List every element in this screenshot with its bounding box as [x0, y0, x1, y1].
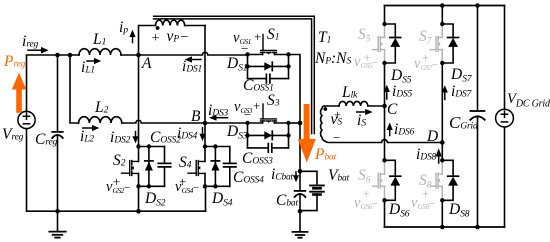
label plus S6	[363, 187, 370, 200]
label D_S5	[391, 68, 411, 84]
S6 junction dots	[382, 158, 386, 162]
wire CGrid branch lower	[477, 117, 479, 228]
label D_S2	[145, 191, 165, 207]
wire A-row with hop over primary-right vertical	[121, 52, 248, 55]
label i_DS3	[208, 103, 228, 119]
S2 cell frame rows	[139, 147, 165, 187]
diode DS7	[442, 24, 453, 63]
label node A	[142, 56, 151, 72]
arrow i_DS3	[216, 117, 228, 119]
capacitor Creg	[52, 131, 62, 133]
wire left leg	[384, 6, 386, 228]
node junction top (Creg tap)	[55, 53, 60, 58]
diode DS5	[385, 24, 396, 63]
label i_DS4	[177, 126, 197, 142]
label plus S7	[422, 51, 429, 64]
wire S2 vertical from node A down	[138, 55, 140, 147]
ground left	[57, 211, 59, 231]
node bottom rail junctions	[440, 225, 445, 230]
label plus vP	[152, 32, 160, 46]
S7 junction dots	[440, 22, 444, 26]
label node B	[191, 109, 200, 125]
wire L2 drop	[70, 55, 79, 123]
label node C	[387, 102, 397, 118]
arrow i_L2	[83, 127, 93, 129]
arrow i_DS4	[202, 128, 204, 135]
label i_Cbat	[271, 167, 293, 183]
wire S1 output to battery bus	[289, 55, 301, 172]
label i_S	[357, 113, 366, 129]
label i_DS6	[394, 122, 414, 138]
arrow i_p	[132, 36, 134, 43]
node ground-left junction	[55, 209, 60, 214]
label plus S5	[364, 51, 371, 64]
label V_reg	[2, 127, 23, 143]
label plus S3	[253, 99, 260, 112]
switch S3 MOSFET	[262, 104, 264, 119]
diode DS6	[385, 160, 396, 200]
label v_GS6-	[354, 196, 378, 211]
wire primary right down to node B	[185, 25, 205, 27]
label D_S8	[449, 202, 469, 218]
capacitor COSS1	[248, 78, 289, 80]
arrow i_L1	[87, 60, 95, 62]
label D_S1	[227, 56, 247, 72]
switch S8 MOSFET (inactive)	[430, 160, 442, 200]
label S8	[419, 173, 431, 189]
label v_GS1+	[233, 31, 251, 46]
label C_OSS1	[243, 78, 274, 94]
label i_DS8	[416, 147, 436, 163]
wire CGrid branch upper	[477, 6, 479, 112]
label D_S7	[451, 67, 471, 83]
label V_DC_Grid	[507, 92, 550, 107]
wire node A up to primary	[139, 26, 156, 56]
label C_OSS4	[233, 170, 264, 186]
label v_GS2-	[106, 180, 130, 195]
wire S4 vertical from node B down	[204, 123, 206, 147]
switch S5 MOSFET (inactive)	[373, 24, 385, 63]
S5 junction dots	[382, 22, 386, 26]
label v_GS7-	[414, 57, 438, 72]
node C	[382, 104, 387, 109]
arrow i_Cbat	[295, 172, 297, 177]
ground battery	[299, 211, 301, 231]
switch S4 MOSFET	[188, 172, 196, 174]
label S6	[358, 168, 370, 184]
label plus S1	[254, 30, 261, 43]
label i_DS5	[392, 84, 412, 100]
label L2	[95, 100, 108, 116]
label i_DS2	[110, 130, 130, 146]
capacitor CGrid	[471, 110, 485, 112]
label plus S8	[422, 187, 429, 200]
label S1	[267, 27, 279, 43]
label i_L2	[80, 129, 94, 145]
secondary polarity dot	[323, 107, 327, 111]
wire secondary bottom to node D with hop over left leg	[325, 140, 442, 143]
node battery bottom junction	[298, 209, 303, 214]
label T_1	[318, 30, 331, 46]
switch S1 MOSFET	[262, 35, 264, 51]
voltage source VDCGrid	[496, 109, 514, 127]
label L_lk	[342, 85, 357, 101]
label v_GS5-	[354, 55, 378, 70]
label C_reg	[35, 132, 57, 148]
S8 junction dots	[440, 158, 444, 162]
label v_P	[167, 29, 180, 45]
wire right leg	[441, 6, 443, 228]
arrow i_reg	[28, 49, 42, 51]
label NP:NS	[315, 51, 351, 67]
primary polarity dot	[156, 26, 160, 30]
label P_bat	[315, 147, 336, 163]
label plus S2	[113, 175, 120, 188]
S1 cell frame	[248, 55, 289, 79]
label C_OSS2	[150, 130, 181, 146]
wire S4 bottom to ground rail	[205, 186, 207, 211]
label S7	[419, 29, 431, 45]
switch S2 MOSFET	[122, 172, 130, 174]
diode DS4	[214, 147, 216, 187]
node bus-B junction	[298, 121, 303, 126]
label v_GS3	[234, 100, 252, 115]
S4 cell frame rows	[205, 147, 230, 187]
label D_S6	[389, 202, 409, 218]
capacitor Cbat	[295, 190, 306, 192]
wire bus to Cbat	[299, 171, 301, 190]
arrow P_reg (power flow)	[12, 73, 26, 113]
node D	[440, 140, 445, 145]
wire S2 bottom to ground rail	[138, 186, 140, 211]
node B	[203, 121, 208, 126]
label i_p	[119, 20, 128, 36]
label L1	[93, 32, 106, 48]
label S5	[358, 27, 370, 43]
arrow i_DS8	[438, 156, 440, 164]
label P_reg	[4, 54, 25, 70]
wire S3 output to battery bus	[289, 122, 301, 124]
wire secondary top to Llk	[325, 105, 340, 107]
arrow i_DS2	[135, 132, 137, 137]
label minus vS	[333, 131, 340, 144]
inductor L1	[79, 49, 121, 55]
arrow i_DS1	[191, 59, 201, 61]
label i_DS1	[182, 59, 202, 75]
label V_bat	[328, 168, 349, 184]
transformer T1 primary winding	[156, 20, 185, 25]
label node D	[427, 129, 438, 145]
arrow i_DS7	[444, 92, 446, 100]
label S4	[179, 155, 191, 171]
S2 cell junction dots	[136, 144, 140, 148]
node battery top junction	[298, 169, 303, 174]
capacitor COSS2	[164, 147, 166, 187]
label i_DS7	[451, 84, 471, 100]
arrow i_S	[357, 111, 366, 113]
label plus S4	[179, 175, 186, 188]
label plus vS	[334, 108, 341, 121]
label D_S3	[227, 124, 247, 140]
S3 cell frame	[248, 123, 289, 148]
label S2	[113, 153, 125, 169]
label minus S3	[244, 108, 251, 121]
switch S6 MOSFET (inactive)	[373, 160, 385, 200]
label minus S1	[241, 42, 248, 55]
node A	[136, 53, 141, 58]
label C_Grid	[449, 114, 478, 131]
diode DS2	[148, 147, 150, 187]
switch S7 MOSFET (inactive)	[430, 24, 442, 63]
label i_L1	[81, 60, 95, 76]
wire top-left from Vreg to L1	[27, 55, 80, 112]
capacitor COSS4	[229, 147, 231, 187]
S3 cell junction dots	[245, 121, 249, 125]
transformer T1 secondary winding	[321, 106, 325, 141]
wire Creg branch upper	[57, 55, 59, 131]
transformer T1 core	[154, 16, 315, 133]
wire bottom rail	[27, 129, 206, 212]
label i_reg	[22, 34, 38, 50]
diode DS1	[248, 65, 289, 67]
node junction top (L2 tap)	[68, 53, 73, 58]
arrow i_DS5	[386, 91, 388, 99]
inductor L2	[79, 117, 122, 123]
S1 cell junction dots	[245, 52, 249, 56]
arrow P_bat (power flow)	[298, 104, 316, 163]
label S3	[267, 93, 279, 109]
S4 cell junction dots	[203, 144, 207, 148]
wire VDCGrid branch	[504, 6, 506, 228]
wire top rail	[385, 5, 505, 7]
node top rail junctions	[440, 3, 445, 8]
wire B-row with hop over S2 vertical	[122, 120, 248, 123]
label minus vP	[181, 31, 189, 45]
arrow i_DS6	[389, 129, 391, 136]
node S2-bottom junction	[136, 209, 141, 214]
capacitor COSS3	[248, 147, 289, 149]
wire Llk to node C	[368, 105, 385, 107]
wire Creg branch lower	[57, 135, 59, 211]
label v_S	[331, 112, 342, 128]
diode DS3	[248, 134, 289, 136]
voltage source Vreg	[18, 111, 35, 128]
label D_S4	[212, 191, 232, 207]
label v_GS8-	[411, 196, 435, 211]
label C_bat	[276, 193, 298, 209]
battery Vbat	[300, 171, 317, 185]
wire bottom rail	[385, 226, 505, 228]
diode DS8	[442, 160, 453, 200]
inductor Llk	[339, 101, 368, 106]
wire Cbat to ground	[299, 194, 301, 211]
label C_OSS3	[242, 151, 273, 167]
label v_GS4-	[175, 180, 199, 195]
